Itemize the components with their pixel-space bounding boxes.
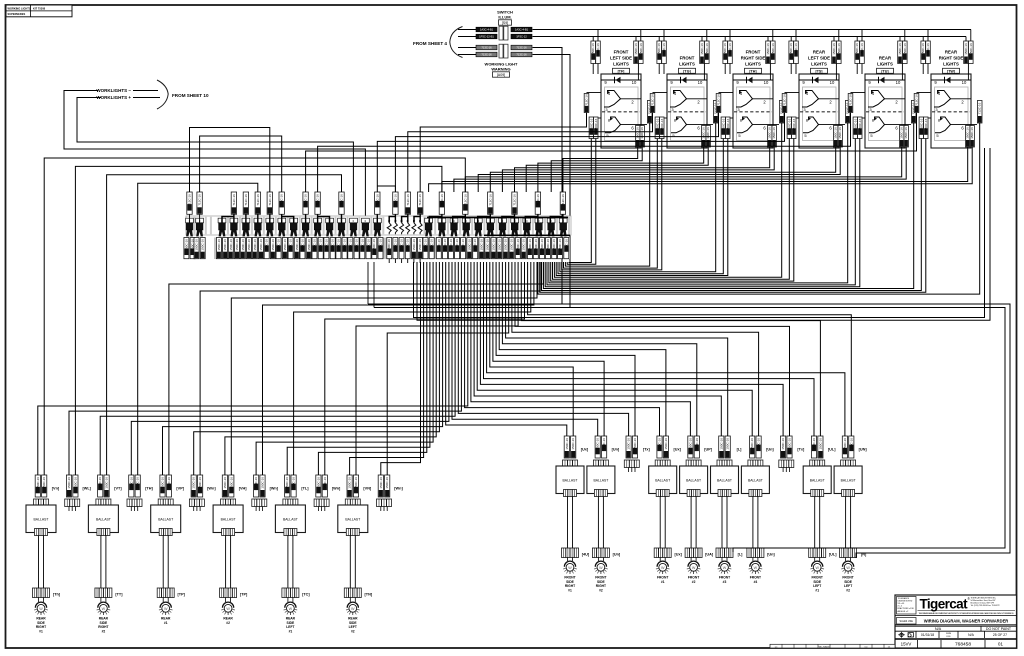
- svg-text:150C-16: 150C-16: [430, 239, 434, 251]
- lower-left plug 2: [65, 499, 80, 507]
- svg-text:712C-16: 712C-16: [316, 194, 320, 206]
- ballast B4 lower-left: [213, 505, 243, 533]
- svg-text:150C-16: 150C-16: [348, 239, 352, 251]
- svg-text:10: 10: [896, 80, 901, 85]
- svg-text:1P3C-12-B1: 1P3C-12-B1: [479, 35, 494, 39]
- lower-left plug 6: [189, 499, 204, 507]
- svg-text:713C-16: 713C-16: [198, 194, 202, 206]
- wire lower-left 9 right: [294, 262, 531, 475]
- splice column 21: [474, 218, 482, 223]
- splice column 15: [362, 218, 370, 223]
- wire lower-right 1 A: [490, 262, 573, 436]
- wire lower-left 10 right: [325, 262, 525, 475]
- lower-right connector pair 4: [657, 436, 662, 458]
- lower-right plug 6: [717, 460, 732, 468]
- svg-text:[VP]: [VP]: [176, 487, 184, 491]
- svg-text:[Wn]: [Wn]: [207, 487, 216, 491]
- svg-text:150C-16: 150C-16: [301, 239, 305, 251]
- svg-text:150C-16: 150C-16: [602, 438, 606, 450]
- switch illum plug: [499, 26, 503, 40]
- wire lower-left 6 left: [194, 262, 440, 475]
- svg-text:150C-16: 150C-16: [323, 477, 327, 489]
- svg-text:712C-16: 712C-16: [651, 94, 655, 106]
- svg-text:150C-16: 150C-16: [36, 477, 40, 489]
- lower-left connector pair 4: [129, 475, 134, 497]
- svg-text:10: 10: [632, 80, 637, 85]
- module TH left input label: [719, 92, 734, 94]
- svg-text:150C-16: 150C-16: [771, 43, 775, 55]
- ballast lower-right 1 output wires: [567, 497, 569, 549]
- svg-text:150C-16: 150C-16: [966, 127, 970, 139]
- ballast lower-right 7 output wires: [814, 497, 816, 549]
- svg-text:150C-16: 150C-16: [348, 477, 352, 489]
- splice feed label R3: [488, 192, 493, 214]
- svg-text:THIS DRAWING AND ALL INFORMATI: THIS DRAWING AND ALL INFORMATION IS THE …: [919, 612, 1015, 615]
- svg-text:SALES USE: SALES USE: [900, 620, 914, 623]
- wire lower-right 9 A: [521, 262, 820, 436]
- svg-text:25 OF 27: 25 OF 27: [993, 633, 1007, 637]
- svg-text:150C-16: 150C-16: [596, 438, 600, 450]
- svg-text:150C-16: 150C-16: [664, 438, 668, 450]
- svg-text:150C-16: 150C-16: [768, 127, 772, 139]
- svg-text:150C-16: 150C-16: [98, 477, 102, 489]
- svg-text:150C-16: 150C-16: [223, 477, 227, 489]
- ballast B1 output wires: [38, 536, 40, 589]
- svg-text:712C-16: 712C-16: [418, 194, 422, 206]
- wire module6 feed C: [306, 113, 917, 193]
- svg-text:150C-16: 150C-16: [964, 43, 968, 55]
- wire module5 feed B: [454, 147, 906, 192]
- svg-text:712C-16: 712C-16: [849, 94, 853, 106]
- splice column 13: [338, 218, 346, 223]
- wire lower-left 4 right: [138, 183, 258, 475]
- svg-text:[Un]: [Un]: [767, 553, 775, 557]
- module TF driver 2: [605, 117, 621, 133]
- module TF wire top-left up: [592, 37, 594, 42]
- module TW top-right connector labels: [964, 41, 969, 64]
- svg-text:712C-16: 712C-16: [978, 102, 982, 114]
- svg-text:150C-16: 150C-16: [354, 477, 358, 489]
- svg-text:#1: #1: [815, 588, 819, 592]
- svg-text:150C-16: 150C-16: [564, 239, 568, 251]
- splice column 11: [314, 218, 322, 223]
- svg-text:WORKLIGHTS −: WORKLIGHTS −: [96, 88, 131, 93]
- splice column 10: [302, 218, 310, 223]
- lower-right connector pair 6: [719, 436, 724, 458]
- module TF body box: [601, 74, 641, 148]
- lamp connector [N] lower-right: [840, 548, 857, 558]
- svg-text:[4U]: [4U]: [582, 553, 590, 557]
- module TU left lower labels: [855, 117, 865, 119]
- lower-left connector pair 12: [378, 475, 383, 497]
- svg-text:REAR: REAR: [945, 50, 958, 55]
- work lamp lower-left 3: [160, 602, 171, 608]
- wire module5 return 1: [547, 139, 855, 285]
- svg-text:150C-16: 150C-16: [461, 239, 465, 251]
- wire module6 feed A: [442, 147, 968, 192]
- svg-text:150C-16: 150C-16: [818, 438, 822, 450]
- svg-text:W: W: [661, 566, 665, 570]
- svg-text:150C-16: 150C-16: [406, 239, 410, 251]
- lower-right spare stubs 8: [782, 468, 784, 473]
- module TS wire top-left up: [790, 37, 792, 42]
- svg-text:[TF]: [TF]: [618, 69, 625, 73]
- harness summary strip: [770, 644, 895, 648]
- module TF bottom-right labels: [636, 126, 640, 148]
- svg-text:TIGERCAT INDUSTRIES INC.: TIGERCAT INDUSTRIES INC.: [971, 596, 997, 599]
- title row divider 3: [895, 630, 1017, 632]
- svg-text:150C-16: 150C-16: [657, 43, 661, 55]
- svg-text:BALLAST: BALLAST: [748, 479, 763, 483]
- svg-text:W: W: [815, 566, 819, 570]
- svg-text:150C-16: 150C-16: [919, 118, 923, 130]
- svg-text:150C-16: 150C-16: [921, 43, 925, 55]
- svg-text:[WL]: [WL]: [82, 487, 91, 491]
- ballast lower-right 3 output wires: [659, 497, 661, 549]
- svg-text:LEFT SIDE: LEFT SIDE: [808, 55, 830, 60]
- wire module2 return 2: [562, 139, 662, 270]
- projection symbols: [900, 633, 903, 636]
- svg-text:150C-16: 150C-16: [721, 118, 725, 130]
- svg-text:150C-16: 150C-16: [455, 239, 459, 251]
- splice column 19: [450, 218, 458, 223]
- ballast B6 output wires: [349, 536, 351, 589]
- ballast lower-right 7: [803, 466, 831, 494]
- splice column 12: [326, 218, 334, 223]
- lamp connector [Un] lower-right: [747, 548, 764, 558]
- module TG bottom-right labels: [702, 126, 706, 148]
- svg-text:Brantford, Ontario, N3T 5P9: Brantford, Ontario, N3T 5P9: [971, 602, 995, 605]
- wire lower-right 5 A: [502, 262, 696, 436]
- svg-text:#2: #2: [599, 588, 603, 592]
- svg-text:Tel: (519) 753-2000 Fax: 753-: Tel: (519) 753-2000 Fax: 753-8272: [971, 605, 1000, 607]
- svg-text:W: W: [289, 607, 293, 611]
- svg-text:712C-16: 712C-16: [268, 194, 272, 206]
- svg-text:150C-16: 150C-16: [660, 118, 664, 130]
- svg-text:150C-16: 150C-16: [336, 239, 340, 251]
- wire lower-left 3 right: [107, 175, 342, 475]
- splice column 26: [535, 218, 543, 223]
- svg-text:150C-16: 150C-16: [324, 239, 328, 251]
- wire module6 feed B: [429, 147, 973, 192]
- svg-text:150C-16: 150C-16: [497, 239, 501, 251]
- svg-text:#1: #1: [39, 629, 43, 633]
- module TF left input label: [587, 92, 602, 94]
- svg-text:712C-16: 712C-16: [561, 194, 565, 206]
- svg-text:150C-16: 150C-16: [283, 239, 287, 251]
- svg-text:W: W: [164, 607, 168, 611]
- title block frame: [895, 595, 1017, 648]
- module TW wire top-left up: [922, 37, 924, 42]
- svg-text:54 Morton Ave. East, Box 637: 54 Morton Ave. East, Box 637: [971, 599, 996, 602]
- svg-text:LIGHTS: LIGHTS: [811, 61, 827, 66]
- svg-text:150C-16: 150C-16: [319, 239, 323, 251]
- wire module4 return 1: [553, 139, 790, 280]
- svg-text:[Th]: [Th]: [53, 593, 61, 597]
- wire module4 return 2: [551, 139, 794, 282]
- work lamp lower-left 2: [98, 602, 109, 608]
- svg-text:150C-16: 150C-16: [591, 43, 595, 55]
- svg-text:150C-16: 150C-16: [443, 239, 447, 251]
- svg-text:150C-16: 150C-16: [970, 127, 974, 139]
- svg-text:BALLAST: BALLAST: [221, 518, 236, 522]
- svg-text:[Ux]: [Ux]: [581, 448, 589, 452]
- svg-text:150C-16: 150C-16: [360, 239, 364, 251]
- svg-text:ILLUM.: ILLUM.: [498, 15, 511, 20]
- lamp connector [Ux] lower-right: [654, 548, 671, 558]
- svg-text:150C-16: 150C-16: [655, 118, 659, 130]
- ballast B2 output wires: [100, 536, 102, 589]
- module TW top-left connector labels: [921, 41, 926, 64]
- svg-text:150C-16: 150C-16: [229, 239, 233, 251]
- svg-text:150C-16: 150C-16: [837, 43, 841, 55]
- svg-text:150C-16: 150C-16: [552, 239, 556, 251]
- lower-left spare stubs 4: [130, 507, 132, 512]
- lamp connector [TC] lower-left: [282, 588, 299, 598]
- splice feed label L1: [231, 192, 236, 214]
- ballast lower-right 4: [680, 466, 708, 494]
- svg-text:W: W: [39, 607, 43, 611]
- lower-right connector pair 5: [688, 436, 693, 458]
- svg-text:[Ux]: [Ux]: [675, 553, 683, 557]
- special column arc A: [190, 128, 270, 193]
- svg-text:150C-16: 150C-16: [834, 127, 838, 139]
- module TG dashed divider: [668, 111, 706, 113]
- svg-text:150C-16: 150C-16: [331, 239, 335, 251]
- svg-text:150C-16: 150C-16: [367, 239, 371, 251]
- module TG body box: [667, 74, 707, 148]
- svg-text:[TT]: [TT]: [115, 593, 123, 597]
- svg-text:150C-16: 150C-16: [449, 239, 453, 251]
- work lamp lower-left 6: [347, 602, 358, 608]
- lower-left connector pair 1: [35, 475, 40, 497]
- svg-text:[TL]: [TL]: [301, 487, 309, 491]
- svg-text:[TP]: [TP]: [240, 593, 248, 597]
- special column wires: [189, 214, 191, 223]
- wire module1 feed C: [420, 113, 586, 193]
- module TF top-right connector labels: [634, 41, 639, 64]
- svg-text:[UL]: [UL]: [828, 448, 836, 452]
- svg-text:768458: 768458: [955, 642, 971, 648]
- wire module1 feed A: [563, 147, 638, 192]
- lower-left connector pair 7: [222, 475, 227, 497]
- svg-text:150C-16: 150C-16: [372, 239, 376, 251]
- lower-left connector pair 11: [347, 475, 352, 497]
- ballast lower-right 1: [556, 466, 584, 494]
- svg-text:712C-16: 712C-16: [244, 194, 248, 206]
- module TF wire top-left down: [592, 64, 594, 75]
- work lamp lower-left 4: [223, 602, 234, 608]
- splice column 6: [254, 218, 262, 223]
- lamp connector [Un] lower-right: [592, 548, 609, 558]
- title disclaimer line: [918, 610, 1016, 612]
- svg-text:[TH]: [TH]: [749, 69, 756, 73]
- svg-text:150C-16: 150C-16: [695, 438, 699, 450]
- svg-text:150C-16: 150C-16: [259, 239, 263, 251]
- lower-right plug 10: [841, 460, 856, 468]
- lamp connector [TT] lower-left: [95, 588, 112, 598]
- svg-text:150C-16: 150C-16: [860, 43, 864, 55]
- wire lower-right 2 A: [493, 262, 604, 436]
- svg-text:150C-16: 150C-16: [198, 477, 202, 489]
- svg-text:[Tx]: [Tx]: [643, 448, 651, 452]
- svg-text:W: W: [692, 566, 696, 570]
- svg-text:150C-16: 150C-16: [253, 239, 257, 251]
- ballast B3 lower-left: [151, 505, 181, 533]
- svg-text:713C-16: 713C-16: [188, 194, 192, 206]
- svg-text:BALLAST: BALLAST: [345, 518, 360, 522]
- svg-text:150C-16: 150C-16: [789, 43, 793, 55]
- svg-text:ANGLES ±1°: ANGLES ±1°: [898, 610, 909, 613]
- work lamp lower-right 6: [750, 561, 761, 567]
- module TF dashed divider: [602, 111, 640, 113]
- splice strip heavy bus line A: [427, 216, 568, 218]
- lower-left plug 10: [314, 499, 329, 507]
- lower-right connector pair 10: [842, 436, 847, 458]
- lower-left plug 3: [96, 499, 111, 507]
- splice column 2: [196, 218, 204, 223]
- module TF top-left connector labels: [591, 41, 596, 64]
- svg-text:W: W: [102, 607, 106, 611]
- lower-left plug 5: [158, 499, 173, 507]
- module TW bottom-right labels: [966, 126, 970, 148]
- module TW wire top-right down: [967, 64, 969, 81]
- svg-text:150C-16: 150C-16: [812, 438, 816, 450]
- svg-text:150C-16: 150C-16: [757, 438, 761, 450]
- wire module1 return 1: [569, 139, 591, 263]
- module TU wire top-left down: [856, 64, 858, 75]
- svg-text:WIRING DIAGRAM, WAGNER FORWARD: WIRING DIAGRAM, WAGNER FORWARDER: [924, 619, 1009, 624]
- worklights brace: [157, 80, 168, 109]
- wire module3 feed B: [502, 147, 774, 192]
- svg-text:LIGHTS: LIGHTS: [745, 61, 761, 66]
- module TG driver 1: [670, 91, 687, 108]
- svg-text:150C-16: 150C-16: [719, 438, 723, 450]
- wire lower-right 8 A: [515, 262, 790, 436]
- module TW wire top-right up: [965, 37, 967, 42]
- splice column 9: [290, 218, 298, 223]
- svg-text:150C-16: 150C-16: [400, 239, 404, 251]
- module TU wire top-right up: [899, 37, 901, 42]
- ballast lower-right 5 output wires: [721, 497, 723, 549]
- worklights plus wire: [133, 97, 160, 99]
- lower-left spare stubs 6: [193, 507, 195, 512]
- svg-text:150C-16: 150C-16: [241, 239, 245, 251]
- svg-text:FROM SHEET 10: FROM SHEET 10: [172, 93, 209, 98]
- svg-text:W: W: [846, 566, 850, 570]
- module TG top-right connector labels: [700, 41, 705, 64]
- svg-text:#1: #1: [661, 580, 665, 584]
- module TG wire top-left up: [658, 37, 660, 42]
- svg-text:150C-16: 150C-16: [418, 239, 422, 251]
- svg-text:150C-16: 150C-16: [705, 43, 709, 55]
- splice feed label L5: [279, 192, 284, 214]
- work lamp lower-right 1: [564, 561, 575, 567]
- module TH driver 2: [737, 117, 753, 133]
- svg-text:150C-16: 150C-16: [688, 438, 692, 450]
- svg-text:DO NOT PAINT: DO NOT PAINT: [986, 627, 1012, 631]
- wire lower-right 10 B: [487, 262, 845, 436]
- module TS top-right connector labels: [832, 41, 837, 64]
- module TG wire top-right down: [703, 64, 705, 81]
- svg-text:712C-16: 712C-16: [915, 94, 919, 106]
- svg-text:LIGHTS: LIGHTS: [679, 61, 695, 66]
- svg-text:150C-16: 150C-16: [540, 239, 544, 251]
- svg-text:150C-16: 150C-16: [924, 118, 928, 130]
- svg-text:150C-16: 150C-16: [904, 127, 908, 139]
- long rail pair2 A: [414, 148, 985, 318]
- svg-text:150C-16: 150C-16: [473, 239, 477, 251]
- svg-text:150C-16: 150C-16: [424, 239, 428, 251]
- splice column 18: [438, 218, 446, 223]
- svg-text:FRONT: FRONT: [614, 50, 629, 55]
- svg-text:150C-16: 150C-16: [843, 438, 847, 450]
- svg-text:150C-16: 150C-16: [596, 43, 600, 55]
- svg-text:[A09]: [A09]: [497, 73, 505, 77]
- svg-text:150C-16: 150C-16: [393, 239, 397, 251]
- long rail lower: [374, 308, 1005, 553]
- svg-text:BALLAST: BALLAST: [563, 479, 578, 483]
- svg-text:713C-16: 713C-16: [481, 46, 492, 50]
- ballast lower-right 8: [834, 466, 862, 494]
- module TU top-left connector labels: [855, 41, 860, 64]
- module TW driver 2: [935, 117, 951, 133]
- splice feed label L2: [243, 192, 248, 214]
- svg-text:150C-16: 150C-16: [772, 127, 776, 139]
- svg-text:150C-16: 150C-16: [254, 477, 258, 489]
- wire lower-left 9 left: [287, 262, 430, 475]
- svg-text:150C-16: 150C-16: [849, 438, 853, 450]
- svg-text:150C-16: 150C-16: [192, 477, 196, 489]
- module TS wire top-right down: [835, 64, 837, 81]
- lamp connector [4U] lower-right: [562, 548, 579, 558]
- splice column 1: [186, 218, 194, 223]
- svg-text:#4: #4: [754, 580, 758, 584]
- wire lower-right 3 A: [496, 262, 635, 436]
- title row divider 4: [895, 637, 1017, 639]
- svg-text:150C-16: 150C-16: [105, 477, 109, 489]
- svg-text:#2: #2: [846, 588, 850, 592]
- svg-text:REAR: REAR: [879, 56, 892, 61]
- lower-right plug 4: [655, 460, 670, 468]
- splice feed label L4: [267, 192, 272, 214]
- svg-text:150C-16: 150C-16: [42, 477, 46, 489]
- ballast lower-right 3: [649, 466, 677, 494]
- splice column 7: [266, 218, 274, 223]
- svg-text:[TP]: [TP]: [178, 593, 186, 597]
- lower-right connector pair 8: [781, 436, 786, 458]
- module TS bottom-right labels: [834, 126, 838, 148]
- svg-text:RIGHT SIDE: RIGHT SIDE: [741, 55, 766, 60]
- wire module1 feed B: [551, 147, 642, 192]
- module TG left lower labels: [657, 117, 667, 119]
- svg-text:150C-16: 150C-16: [201, 239, 205, 251]
- lower-left connector pair 10: [316, 475, 321, 497]
- warning wire A route: [533, 48, 563, 305]
- svg-text:150C-16: 150C-16: [510, 239, 514, 251]
- svg-text:[TS]: [TS]: [816, 69, 823, 73]
- svg-text:150C-16: 150C-16: [534, 239, 538, 251]
- ballast B6 lower-left: [338, 505, 368, 533]
- svg-text:[Wn]: [Wn]: [270, 487, 279, 491]
- svg-text:W: W: [351, 607, 355, 611]
- module TG top-left connector labels: [657, 41, 662, 64]
- svg-text:#2: #2: [351, 629, 355, 633]
- lower-left plug 9: [283, 499, 298, 507]
- svg-text:[VH]: [VH]: [239, 487, 248, 491]
- svg-text:150C-16: 150C-16: [223, 239, 227, 251]
- lamp connector [UA] lower-right: [685, 548, 702, 558]
